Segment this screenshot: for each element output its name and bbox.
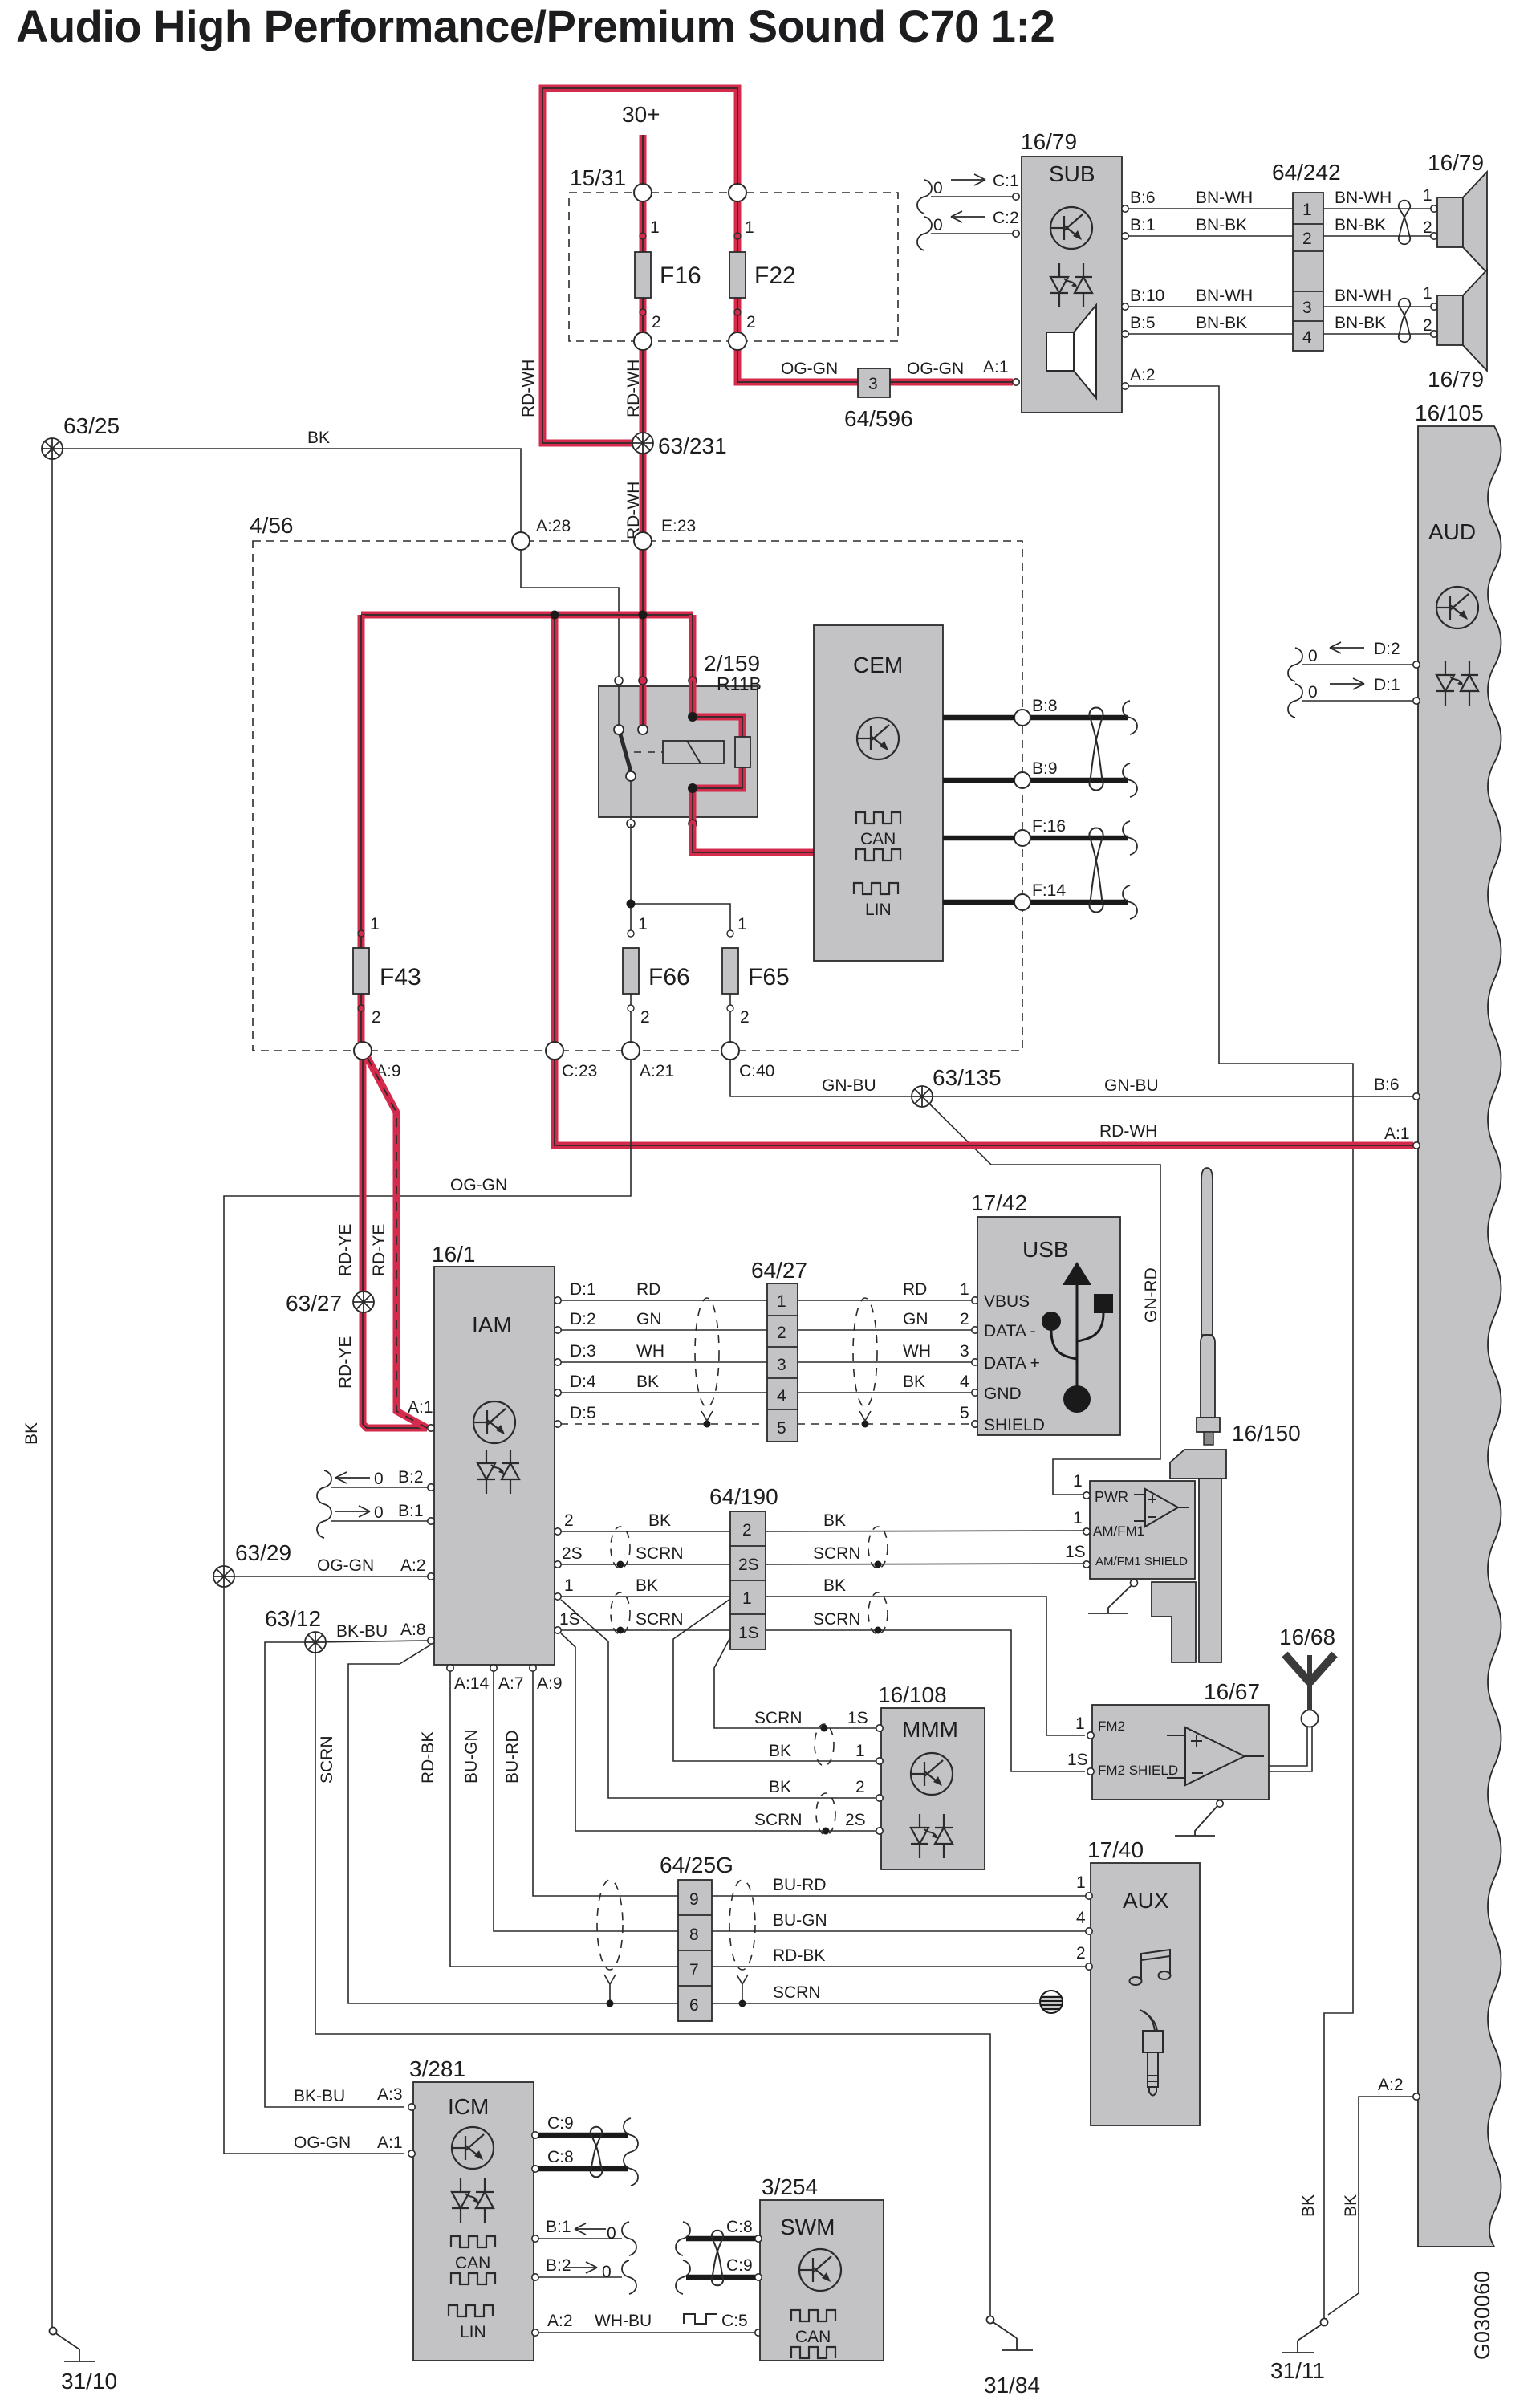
transistor icon IAM — [473, 1401, 515, 1443]
shield ellipse left of 64/27 — [695, 1298, 719, 1421]
pin D:1 stub with arrow — [1288, 676, 1420, 718]
svg-text:B:2: B:2 — [398, 1468, 424, 1487]
svg-text:RD-WH: RD-WH — [624, 482, 643, 539]
fuse F65 — [722, 915, 790, 1051]
svg-text:SCRN: SCRN — [636, 1610, 684, 1629]
fuse F16 — [635, 218, 701, 332]
svg-text:RD-WH: RD-WH — [519, 360, 538, 417]
svg-text:31/84: 31/84 — [984, 2373, 1040, 2398]
svg-text:0: 0 — [1308, 647, 1318, 665]
wire BK-BU splice to ICM A:3 — [265, 1642, 404, 2107]
svg-text:A:1: A:1 — [1384, 1125, 1410, 1143]
svg-text:1: 1 — [370, 915, 380, 934]
svg-text:C:8: C:8 — [726, 2218, 753, 2236]
pin C:1 stub with arrow — [917, 172, 1019, 214]
svg-text:GN: GN — [636, 1310, 662, 1328]
svg-text:SUB: SUB — [1049, 161, 1095, 186]
pin B:1 stub ICM — [532, 2218, 636, 2255]
svg-text:15/31: 15/31 — [570, 165, 626, 190]
wire diagonal IAM pin1S to vertical x717 — [561, 1633, 878, 1831]
node C:23 — [546, 1042, 597, 1080]
svg-text:RD: RD — [903, 1280, 927, 1299]
diode pair icon MMM — [911, 1814, 953, 1858]
wire red branch to C:23 — [551, 615, 559, 1051]
svg-text:C:40: C:40 — [739, 1062, 774, 1080]
wire SCRN MMM 1S up to 64/190 — [714, 1637, 878, 1728]
node A:28 — [512, 517, 571, 550]
svg-text:G030060: G030060 — [1470, 2271, 1494, 2360]
svg-text:DATA +: DATA + — [984, 1354, 1040, 1373]
music note icon AUX — [1130, 1950, 1171, 1985]
svg-text:IAM: IAM — [472, 1312, 512, 1337]
shield ellipse IAM 2/2S — [611, 1527, 630, 1568]
svg-text:2: 2 — [1076, 1944, 1086, 1963]
node B:9 boundary circle — [1014, 772, 1030, 788]
label BU-RD right — [773, 1876, 827, 1894]
svg-text:1: 1 — [1076, 1873, 1086, 1892]
label RD-BK right — [773, 1946, 825, 1965]
node E:23 — [634, 517, 696, 550]
fuse F43 — [353, 915, 421, 1027]
wire BK from A:28 down to relay switch pin — [521, 550, 619, 681]
svg-text:1: 1 — [1075, 1714, 1085, 1733]
node 15/31 top circle F16 — [634, 184, 652, 201]
wire thick CEM F:16 — [943, 817, 1128, 838]
control module SWM 3/254 — [755, 2174, 884, 2361]
twisted pair symbol ICM C:9/C:8 — [591, 2127, 602, 2178]
svg-text:2S: 2S — [738, 1556, 759, 1574]
svg-text:GND: GND — [984, 1385, 1022, 1403]
svg-text:BK: BK — [636, 1373, 659, 1391]
wire GN-RD from splice 63/135 down to 16/150 PWR — [929, 1104, 1160, 1495]
splice 63/231 — [632, 433, 727, 458]
svg-text:RD-YE: RD-YE — [336, 1336, 355, 1389]
svg-text:1: 1 — [737, 915, 747, 934]
svg-text:BK-BU: BK-BU — [336, 1622, 388, 1641]
svg-text:1: 1 — [638, 915, 648, 934]
svg-text:4: 4 — [777, 1387, 786, 1405]
wire BK 64/190 to 16/150 AM/FM1 — [766, 1511, 1085, 1531]
svg-text:F66: F66 — [648, 964, 690, 990]
diode pair icon ICM — [452, 2178, 494, 2223]
node C:40 — [721, 1042, 774, 1080]
svg-text:RD-WH: RD-WH — [624, 360, 643, 417]
svg-text:1S: 1S — [847, 1709, 868, 1727]
wire BK MMM 1 up to 64/190 — [673, 1599, 878, 1761]
wire BK IAM pin2 to 64/190 — [555, 1511, 730, 1535]
svg-text:3/254: 3/254 — [762, 2174, 818, 2199]
svg-text:7: 7 — [689, 1961, 699, 1979]
svg-text:3: 3 — [868, 375, 878, 393]
svg-text:RD-YE: RD-YE — [370, 1224, 388, 1276]
wire BN-WH SUB B:10 to 64/242 pin3 — [1122, 287, 1293, 310]
svg-text:17/42: 17/42 — [971, 1190, 1027, 1215]
svg-text:63/25: 63/25 — [63, 413, 120, 438]
svg-text:OG-GN: OG-GN — [317, 1556, 374, 1575]
svg-text:64/190: 64/190 — [709, 1484, 778, 1509]
svg-text:3: 3 — [1302, 299, 1312, 317]
svg-text:OG-GN: OG-GN — [450, 1176, 507, 1194]
transistor icon AUD — [1436, 587, 1478, 628]
svg-text:17/40: 17/40 — [1087, 1837, 1144, 1862]
wire red F22 branch down to OG-GN run toward SUB A:1 — [737, 341, 1013, 382]
CEM control module — [814, 625, 943, 961]
wire BU-GN from IAM A:7 to AUX pin4 — [462, 1665, 1086, 1931]
svg-text:B:6: B:6 — [1374, 1076, 1400, 1094]
svg-text:A:2: A:2 — [547, 2312, 573, 2330]
svg-text:BK: BK — [648, 1511, 671, 1530]
svg-text:F65: F65 — [748, 964, 790, 990]
svg-text:RD-WH: RD-WH — [1099, 1122, 1157, 1141]
svg-text:16/79: 16/79 — [1428, 150, 1484, 175]
svg-text:WH-BU: WH-BU — [595, 2312, 652, 2330]
diode pair icon SUB — [1050, 263, 1092, 307]
svg-text:RD-BK: RD-BK — [419, 1731, 437, 1784]
pin B:2 stub with arrow — [317, 1468, 434, 1504]
svg-text:1S: 1S — [1065, 1543, 1086, 1561]
svg-text:BK: BK — [22, 1422, 41, 1445]
shield ellipse right of 64/27 — [853, 1298, 877, 1421]
svg-text:SCRN: SCRN — [813, 1610, 861, 1629]
antenna amplifier box 16/150 — [1090, 1481, 1195, 1579]
connector 15/31 (dashed fuse box) — [569, 165, 898, 341]
svg-text:D:2: D:2 — [570, 1310, 596, 1328]
ground under 16/150 amp — [1088, 1580, 1138, 1614]
shield ellipse MMM pair1 — [815, 1724, 834, 1766]
transistor icon SUB — [1050, 207, 1092, 249]
wire red branch to F43 / A:9 — [358, 615, 365, 1051]
wire BN-WH 64/242 pin1 to speaker1 — [1323, 186, 1432, 209]
twisted pair symbol speaker2 — [1399, 299, 1410, 343]
pin A:1 SUB — [983, 358, 1019, 385]
svg-text:F16: F16 — [660, 262, 701, 289]
svg-text:0: 0 — [374, 1503, 384, 1522]
svg-text:16/108: 16/108 — [878, 1682, 947, 1707]
svg-text:A:14: A:14 — [454, 1674, 490, 1693]
svg-text:D:1: D:1 — [1374, 676, 1400, 694]
speaker 16/79 top — [1428, 150, 1487, 273]
svg-text:B:10: B:10 — [1130, 287, 1164, 305]
svg-text:2: 2 — [564, 1511, 574, 1530]
shield ellipse right 64/25G — [729, 1880, 755, 2007]
svg-text:A:2: A:2 — [1378, 2076, 1404, 2094]
svg-text:BU-GN: BU-GN — [773, 1911, 827, 1930]
svg-text:B:1: B:1 — [1130, 216, 1156, 234]
wire thick ICM C:9 — [532, 2114, 638, 2152]
shield ellipse IAM 1/1S — [611, 1592, 630, 1634]
node 15/31 bottom circle F16 — [634, 332, 652, 350]
svg-text:1: 1 — [1073, 1509, 1083, 1527]
svg-text:A:3: A:3 — [377, 2085, 403, 2104]
splice 63/12 — [265, 1606, 326, 1653]
wire D:5 shield dashed IAM to 64/27 — [555, 1404, 767, 1428]
wire BN-BK SUB B:5 to 64/242 pin4 — [1122, 314, 1293, 337]
svg-text:D:4: D:4 — [570, 1373, 596, 1391]
svg-text:2: 2 — [777, 1324, 786, 1342]
antenna 16/68 — [1269, 1625, 1335, 1771]
svg-text:A:1: A:1 — [983, 358, 1009, 376]
wire thick SWM C:9 — [676, 2256, 755, 2294]
transistor icon MMM — [911, 1753, 953, 1795]
wire BK 64/190 pin1 to FM2 — [766, 1576, 1085, 1735]
svg-text:CAN: CAN — [860, 830, 896, 848]
opamp icon 16/150 — [1134, 1489, 1189, 1527]
diode pair icon IAM — [477, 1450, 519, 1494]
svg-text:BN-BK: BN-BK — [1196, 216, 1247, 234]
label BU-GN right — [773, 1911, 827, 1930]
svg-text:1: 1 — [1302, 201, 1312, 219]
pin B:2 stub ICM — [532, 2256, 636, 2294]
svg-text:AM/FM1: AM/FM1 — [1093, 1523, 1144, 1539]
connector USB 17/42 — [971, 1190, 1120, 1435]
svg-text:OG-GN: OG-GN — [907, 360, 964, 378]
svg-text:BK: BK — [1299, 2194, 1318, 2217]
svg-text:1: 1 — [742, 1589, 752, 1608]
svg-text:RD-BK: RD-BK — [773, 1946, 825, 1965]
svg-text:63/135: 63/135 — [933, 1065, 1002, 1090]
svg-text:GN: GN — [903, 1310, 928, 1328]
svg-text:BU-GN: BU-GN — [462, 1729, 481, 1784]
amplifier FM2 16/67 — [1067, 1679, 1269, 1800]
control module ICM 3/281 — [408, 2056, 534, 2361]
svg-text:BK: BK — [769, 1742, 791, 1760]
wire shield dashed 64/27 to USB SHIELD — [798, 1404, 978, 1428]
svg-text:A:21: A:21 — [640, 1062, 674, 1080]
svg-text:GN-RD: GN-RD — [1142, 1267, 1160, 1323]
svg-text:4: 4 — [1302, 328, 1312, 347]
wire thick ICM C:8 — [532, 2148, 638, 2186]
wire RD-BK from IAM A:14 to AUX pin2 — [419, 1665, 1086, 1967]
antenna bracket 16/150 — [1152, 1450, 1226, 1662]
connector 4/56 (dashed box) — [250, 513, 1022, 1051]
svg-text:R11B: R11B — [717, 673, 762, 694]
svg-text:1: 1 — [1423, 186, 1432, 205]
svg-text:B:1: B:1 — [546, 2218, 571, 2236]
svg-text:A:9: A:9 — [537, 1674, 563, 1693]
svg-text:SHIELD: SHIELD — [984, 1416, 1045, 1434]
svg-text:2: 2 — [960, 1310, 969, 1328]
svg-text:C:5: C:5 — [721, 2312, 748, 2330]
svg-text:B:6: B:6 — [1130, 189, 1156, 207]
fuse F66 — [623, 915, 690, 1051]
svg-text:C:9: C:9 — [547, 2114, 574, 2133]
diode pair icon AUD — [1436, 661, 1478, 706]
svg-text:1: 1 — [855, 1742, 865, 1760]
transistor icon ICM — [452, 2127, 494, 2169]
ground under FM2 — [1175, 1800, 1223, 1836]
aux device AUX 17/40 — [1076, 1837, 1200, 2125]
svg-text:F22: F22 — [754, 262, 796, 289]
svg-text:FM2: FM2 — [1098, 1719, 1125, 1734]
LIN icon ICM — [449, 2305, 493, 2341]
svg-text:BK: BK — [823, 1576, 846, 1595]
svg-text:MMM: MMM — [902, 1717, 958, 1742]
svg-text:0: 0 — [933, 179, 943, 197]
svg-text:BK: BK — [636, 1576, 658, 1595]
wire RD 64/27 to USB VBUS — [798, 1280, 978, 1304]
wire red RD-YE dashed from A:9 to IAM A:1 — [368, 1058, 427, 1428]
svg-text:D:3: D:3 — [570, 1342, 596, 1361]
wire BN-BK 64/242 pin2 to speaker1 — [1323, 216, 1432, 237]
svg-text:E:23: E:23 — [661, 517, 696, 535]
wire BK IAM pin1 to 64/190 diagonal — [555, 1576, 730, 1600]
wire OG-GN from A:21 to 63/29 — [224, 1060, 631, 2154]
node 15/31 bottom circle F22 — [729, 332, 746, 350]
svg-text:BN-BK: BN-BK — [1196, 314, 1247, 332]
svg-text:PWR: PWR — [1095, 1489, 1128, 1505]
CAN icon CEM — [856, 812, 900, 860]
svg-text:BN-WH: BN-WH — [1196, 189, 1253, 207]
node B:8 boundary circle — [1014, 710, 1030, 726]
wire red 30+ stub down through F16 to splice 63/231 — [622, 102, 660, 443]
wire GN-BU from C:40 to AUD B:6 — [730, 1060, 1420, 1100]
svg-text:RD-YE: RD-YE — [336, 1224, 355, 1276]
ground 31/84 — [984, 2316, 1040, 2398]
wire red bus inside 4/56 — [361, 612, 693, 619]
svg-text:B:9: B:9 — [1032, 759, 1058, 778]
svg-text:OG-GN: OG-GN — [781, 360, 838, 378]
svg-text:1: 1 — [745, 218, 754, 237]
svg-text:LIN: LIN — [460, 2323, 486, 2341]
shield end terminator — [1040, 1991, 1063, 2013]
svg-text:63/27: 63/27 — [286, 1291, 342, 1316]
wire BK from splice 63/25 to A:28 — [52, 429, 521, 532]
svg-text:2: 2 — [372, 1008, 381, 1027]
svg-text:63/29: 63/29 — [235, 1540, 291, 1565]
speaker 16/79 bottom — [1428, 270, 1487, 392]
svg-text:C:2: C:2 — [993, 209, 1019, 227]
svg-text:SCRN: SCRN — [754, 1811, 803, 1829]
svg-text:SWM: SWM — [780, 2215, 835, 2239]
wire D:2 GN IAM to 64/27 — [555, 1310, 767, 1333]
svg-text:9: 9 — [689, 1890, 699, 1909]
svg-text:F:14: F:14 — [1032, 881, 1066, 900]
svg-text:1: 1 — [650, 218, 660, 237]
wire BN-BK 64/242 pin4 to speaker2 — [1323, 314, 1432, 335]
control module MMM 16/108 — [876, 1682, 985, 1869]
relay 2/159 R11B — [599, 651, 762, 828]
svg-text:2: 2 — [652, 313, 661, 332]
shield ellipse MMM pair2 — [816, 1793, 835, 1835]
connector 64/27 — [751, 1258, 807, 1442]
wire thick CEM B:8 — [943, 697, 1128, 718]
svg-text:4: 4 — [960, 1373, 969, 1391]
fuse F22 — [729, 218, 796, 332]
label SCRN 1S MMM — [754, 1709, 868, 1732]
svg-text:D:1: D:1 — [570, 1280, 596, 1299]
svg-text:AUD: AUD — [1428, 519, 1476, 544]
svg-text:1: 1 — [564, 1576, 574, 1595]
wire SCRN to shield terminator — [712, 2003, 1039, 2004]
svg-text:1: 1 — [1423, 284, 1432, 303]
svg-text:0: 0 — [602, 2263, 612, 2281]
wire BN-WH SUB B:6 to 64/242 pin1 — [1122, 189, 1293, 212]
svg-text:1: 1 — [1073, 1472, 1083, 1491]
wire WH 64/27 to USB DATA+ — [798, 1342, 978, 1365]
wire red RD-YE solid from A:9 to IAM A:1 — [336, 1060, 427, 1428]
wire BK splice 63/25 down to ground 31/10 — [22, 459, 52, 2327]
wire BK from AUD A:2 — [1328, 2076, 1420, 2315]
twisted pair symbol SWM — [712, 2231, 723, 2286]
wire diagonal IAM pin1 to vertical x758 — [561, 1600, 878, 1798]
svg-text:0: 0 — [1308, 683, 1318, 702]
svg-text:B:2: B:2 — [546, 2256, 571, 2275]
node 15/31 top circle F22 — [729, 184, 746, 201]
svg-text:1S: 1S — [1067, 1751, 1088, 1769]
wire SCRN IAM pin1S — [555, 1610, 730, 1634]
svg-text:16/67: 16/67 — [1204, 1679, 1260, 1704]
svg-text:CEM: CEM — [853, 653, 903, 677]
label BK 2 MMM — [769, 1778, 865, 1796]
svg-text:FM2 SHIELD: FM2 SHIELD — [1098, 1763, 1178, 1778]
pin 1 PWR — [1073, 1472, 1090, 1499]
svg-text:F43: F43 — [380, 964, 421, 990]
wire red main RD-WH loop 30+ feed — [542, 88, 737, 443]
svg-text:6: 6 — [689, 1996, 699, 2015]
svg-text:BU-RD: BU-RD — [773, 1876, 827, 1894]
svg-text:0: 0 — [607, 2224, 616, 2243]
svg-text:A:1: A:1 — [408, 1398, 433, 1417]
svg-text:BN-WH: BN-WH — [1335, 189, 1392, 207]
svg-text:CAN: CAN — [455, 2254, 490, 2272]
wire BK relay switch down to F66/F65 tee — [627, 824, 731, 934]
opamp icon FM2 — [1167, 1727, 1264, 1785]
svg-text:64/25G: 64/25G — [660, 1853, 733, 1877]
wire GN 64/27 to USB DATA- — [798, 1310, 978, 1333]
svg-text:0: 0 — [933, 216, 943, 234]
svg-text:2: 2 — [742, 1521, 752, 1540]
wire WH-BU ICM A:2 to SWM C:5 — [532, 2312, 762, 2336]
svg-text:4/56: 4/56 — [250, 513, 294, 538]
svg-text:BN-WH: BN-WH — [1196, 287, 1253, 305]
wire SCRN from 63/12 down to ground run — [315, 1653, 990, 2316]
svg-text:BK: BK — [903, 1373, 925, 1391]
svg-text:16/68: 16/68 — [1279, 1625, 1335, 1649]
svg-text:3/281: 3/281 — [409, 2056, 465, 2081]
svg-text:2: 2 — [740, 1008, 750, 1027]
svg-text:0: 0 — [374, 1470, 384, 1488]
svg-text:BN-BK: BN-BK — [1335, 314, 1386, 332]
svg-text:2S: 2S — [845, 1811, 866, 1829]
svg-text:4: 4 — [1076, 1909, 1086, 1927]
svg-text:16/1: 16/1 — [432, 1242, 476, 1267]
svg-text:C:23: C:23 — [562, 1062, 597, 1080]
svg-text:SCRN: SCRN — [773, 1983, 821, 2002]
CAN icon ICM — [451, 2236, 495, 2284]
wire thick CEM F:14 — [943, 881, 1128, 902]
svg-text:F:16: F:16 — [1032, 817, 1066, 836]
svg-text:B:5: B:5 — [1130, 314, 1156, 332]
connector 64/242 — [1272, 160, 1341, 351]
svg-text:5: 5 — [960, 1404, 969, 1422]
svg-text:31/10: 31/10 — [61, 2369, 117, 2394]
wire BN-WH 64/242 pin3 to speaker2 — [1323, 284, 1432, 307]
svg-text:VBUS: VBUS — [984, 1292, 1030, 1311]
svg-text:C:9: C:9 — [726, 2256, 753, 2275]
ground 31/11 — [1270, 2319, 1328, 2384]
node A:9 — [354, 1042, 401, 1080]
wire D:3 WH IAM to 64/27 — [555, 1342, 767, 1365]
splice 63/25 — [42, 413, 120, 459]
svg-text:2: 2 — [746, 313, 756, 332]
wire OG-GN 63/29 to IAM A:2 — [224, 1556, 434, 1580]
svg-text:GN-BU: GN-BU — [1104, 1076, 1159, 1095]
pin 1 AM/FM1 — [1073, 1509, 1090, 1535]
wire red branch to relay pin 3 — [689, 615, 697, 681]
node F:14 boundary circle — [1014, 894, 1030, 910]
svg-text:LIN: LIN — [865, 901, 892, 919]
svg-text:B:8: B:8 — [1032, 697, 1058, 715]
